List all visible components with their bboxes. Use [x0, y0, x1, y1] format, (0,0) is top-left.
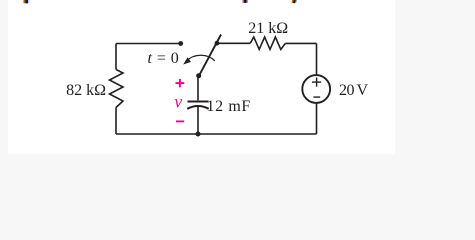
capacitor C 12 mF plates — [187, 102, 208, 109]
cropped caption fragment left — [24, 0, 30, 3]
wire to top-right corner — [285, 42, 316, 44]
cropped caption fragment middle — [243, 0, 248, 3]
voltage source plus sign — [312, 78, 321, 87]
wire switch pivot to capacitor — [197, 76, 199, 101]
capacitor polarity minus — [176, 120, 184, 122]
svg-text:82 kΩ: 82 kΩ — [66, 82, 106, 99]
svg-text:v: v — [174, 92, 182, 112]
wire left upper segment — [115, 44, 117, 70]
switch pivot node — [196, 73, 201, 78]
switch blade — [200, 35, 222, 75]
resistor 21 kOhm zigzag — [250, 37, 285, 49]
switch right contact node — [215, 41, 220, 46]
wire right upper segment — [316, 43, 318, 74]
capacitor polarity plus — [176, 79, 185, 87]
voltage source VS circle — [302, 75, 330, 103]
wire capacitor to bottom node — [197, 107, 199, 134]
switch motion arrow — [183, 55, 215, 64]
svg-text:12 mF: 12 mF — [207, 98, 251, 115]
switch left contact node — [178, 41, 183, 46]
wire right lower segment — [316, 103, 318, 134]
wire top-left segment — [116, 43, 181, 45]
resistor 82 kOhm zigzag — [110, 70, 124, 108]
bottom junction node — [196, 132, 201, 137]
svg-text:20 V: 20 V — [339, 82, 369, 99]
voltage source minus sign — [313, 96, 320, 98]
svg-text:t = 0: t = 0 — [148, 50, 180, 67]
svg-text:21 kΩ: 21 kΩ — [248, 20, 288, 37]
wire top-right segment from switch — [217, 42, 250, 44]
cropped caption fragment comma — [292, 0, 297, 3]
wire bottom segment — [116, 133, 317, 135]
wire left lower segment — [115, 108, 117, 135]
